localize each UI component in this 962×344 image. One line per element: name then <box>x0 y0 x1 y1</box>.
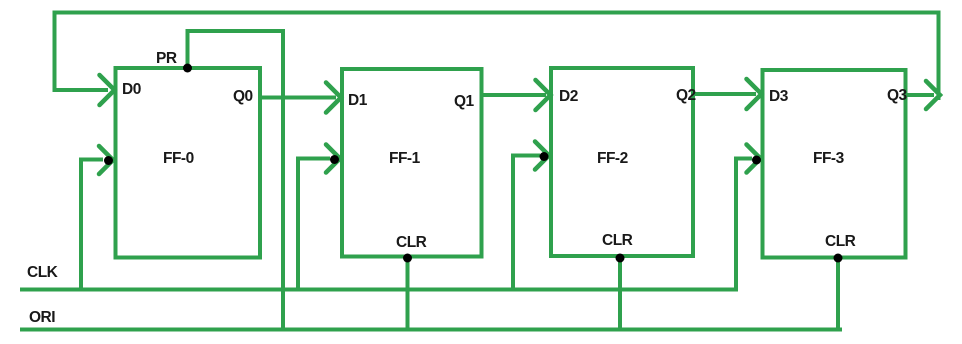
svg-text:CLR: CLR <box>602 232 633 249</box>
flip-flop FF-2 box <box>551 68 693 256</box>
svg-text:FF-0: FF-0 <box>163 150 194 167</box>
arrow into D3 <box>747 79 762 109</box>
wire CLK branch to FF-2 clock <box>513 156 540 290</box>
svg-text:D2: D2 <box>559 88 578 105</box>
junction dot FF-2 clock <box>540 152 549 161</box>
wire CLR FF-3 to ORI rail <box>836 258 840 330</box>
arrow into D2 <box>536 80 551 110</box>
svg-text:D3: D3 <box>769 88 789 105</box>
svg-text:FF-2: FF-2 <box>597 150 628 167</box>
wire Q2 to D3 <box>693 92 756 96</box>
junction dot FF-0 clock <box>104 156 113 165</box>
svg-text:Q2: Q2 <box>676 87 696 104</box>
svg-text:CLR: CLR <box>825 233 856 250</box>
wire Q1 to D2 <box>481 93 547 97</box>
flip-flop FF-0 box <box>116 68 261 258</box>
junction dot FF-3 clock <box>752 156 761 165</box>
svg-text:FF-3: FF-3 <box>813 150 845 167</box>
wire PR to ORI rail <box>188 31 284 329</box>
arrow into D0 <box>100 75 115 105</box>
svg-text:Q0: Q0 <box>233 88 253 105</box>
junction dot FF-1 clock <box>330 155 339 164</box>
svg-text:PR: PR <box>156 50 177 67</box>
junction dot CLR FF-2 <box>616 254 625 263</box>
arrow into FF-0 clock <box>99 146 113 174</box>
svg-text:ORI: ORI <box>29 309 55 326</box>
flip-flop FF-1 box <box>342 69 482 257</box>
wire CLR FF-1 to ORI rail <box>406 257 410 330</box>
wire CLR FF-2 to ORI rail <box>618 256 622 329</box>
svg-text:Q3: Q3 <box>887 87 908 104</box>
wire feedback loop Q3 to D0 (top rail) <box>55 13 939 101</box>
junction dot CLR FF-1 <box>403 254 412 263</box>
arrow into FF-1 clock <box>326 145 340 173</box>
wire ORI rail <box>20 328 842 332</box>
wire Q3 output <box>906 93 935 97</box>
wire CLK branch to FF-1 clock <box>298 159 330 290</box>
wire CLK rail <box>20 288 738 292</box>
wire CLK branch to FF-3 clock <box>736 159 752 290</box>
junction dot PR <box>183 64 192 73</box>
svg-text:CLR: CLR <box>396 234 427 251</box>
svg-text:Q1: Q1 <box>454 93 475 110</box>
wire Q0 to D1 <box>260 96 336 100</box>
junction dot CLR FF-3 <box>834 254 843 263</box>
svg-text:FF-1: FF-1 <box>389 150 421 167</box>
svg-text:CLK: CLK <box>27 264 59 281</box>
svg-text:D1: D1 <box>348 92 368 109</box>
flip-flop FF-3 box <box>763 70 906 258</box>
arrow at Q3 output <box>926 81 940 109</box>
arrow into FF-2 clock <box>535 142 549 170</box>
svg-text:D0: D0 <box>122 81 141 98</box>
arrow into D1 <box>326 83 341 113</box>
wire CLK branch to FF-0 clock <box>81 160 103 290</box>
arrow into FF-3 clock <box>747 145 761 173</box>
